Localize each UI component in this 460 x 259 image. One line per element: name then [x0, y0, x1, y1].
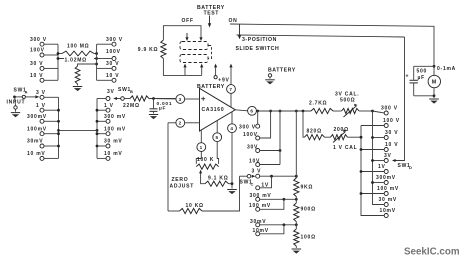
- potentiometer 500Ω 3V CAL: [335, 92, 373, 118]
- resistor 9.1 KΩ: [205, 175, 232, 186]
- svg-text:30 V: 30 V: [106, 61, 119, 67]
- pin 6 (output): [235, 106, 256, 115]
- svg-text:INPUT: INPUT: [7, 100, 26, 106]
- wire: SW1C 100mV row: [260, 199, 284, 209]
- svg-text:2: 2: [179, 121, 182, 126]
- wire: output to divider chain: [295, 110, 298, 178]
- svg-text:SLIDE SWITCH: SLIDE SWITCH: [236, 46, 280, 52]
- resistor 100 Ω: [294, 229, 316, 246]
- wire: lower attenuator link with 1.02MΩ label: [57, 56, 98, 63]
- ground at pin4/9.1K junction: [227, 182, 237, 194]
- wire: SW1C 300mV to divider tap: [260, 198, 298, 201]
- svg-text:10 V: 10 V: [385, 142, 398, 148]
- OFF pole arrow: [185, 33, 188, 41]
- svg-text:100 V: 100 V: [383, 118, 400, 124]
- pin 1: [196, 130, 205, 164]
- svg-text:4: 4: [230, 126, 233, 131]
- svg-text:300 V: 300 V: [30, 37, 47, 43]
- svg-text:9.1 KΩ: 9.1 KΩ: [208, 175, 228, 181]
- svg-text:100V: 100V: [243, 132, 258, 138]
- svg-text:30mV: 30mV: [27, 139, 43, 145]
- wire: battery-test line to SW1D wiper: [237, 35, 405, 37]
- capacitor 0.001 µF: [149, 97, 172, 119]
- svg-text:3: 3: [179, 97, 182, 102]
- ON pole arrow: [238, 25, 241, 40]
- svg-text:1.02MΩ: 1.02MΩ: [65, 58, 87, 64]
- svg-text:820Ω: 820Ω: [307, 129, 322, 135]
- svg-text:900Ω: 900Ω: [301, 206, 316, 212]
- switch SW1D wiper: [392, 37, 413, 170]
- svg-text:SeekIC.com: SeekIC.com: [404, 247, 460, 258]
- label BATTERY TEST: [197, 5, 225, 16]
- pin 5: [213, 120, 222, 163]
- wire: SW1C 1V row: [260, 176, 272, 188]
- resistor 1.02 MΩ to ground: [73, 63, 98, 92]
- svg-text:3-POSITION: 3-POSITION: [242, 37, 277, 43]
- svg-text:1 V CAL: 1 V CAL: [333, 145, 357, 151]
- battery negative terminal to ground: [265, 68, 296, 85]
- svg-text:10 V: 10 V: [106, 73, 119, 79]
- wire: SW1C 3V row to divider top: [260, 175, 298, 178]
- capacitor 500 µF: [406, 66, 435, 96]
- resistor 2.7 KΩ: [309, 100, 342, 113]
- svg-text:6: 6: [250, 109, 253, 114]
- ground divider bottom: [292, 246, 302, 254]
- svg-text:200Ω: 200Ω: [334, 127, 349, 133]
- switch SW1C wiper: [240, 174, 256, 186]
- svg-text:µF: µF: [159, 106, 166, 112]
- switch wafer SW1C contacts: [239, 124, 272, 236]
- svg-text:7: 7: [229, 87, 232, 92]
- pin 7 (V+): [227, 64, 236, 108]
- svg-text:300 mV: 300 mV: [250, 193, 272, 199]
- wire: SW1C 10mV row: [260, 225, 284, 234]
- slide switch mechanical link: [209, 46, 212, 59]
- svg-text:B: B: [130, 89, 134, 94]
- label ZERO ADJUST: [170, 177, 195, 189]
- svg-text:1: 1: [200, 145, 203, 150]
- switch SW1B wiper at 3V: [97, 87, 134, 101]
- wire: bus B (1V cal ranges): [360, 126, 385, 216]
- svg-text:ZERO: ZERO: [172, 177, 189, 183]
- resistor 22MΩ: [123, 96, 176, 109]
- resistor 820 Ω: [305, 129, 331, 140]
- svg-text:500: 500: [417, 68, 428, 74]
- svg-text:100 mV: 100 mV: [249, 203, 271, 209]
- svg-text:5: 5: [216, 135, 219, 140]
- svg-text:30V: 30V: [247, 144, 258, 150]
- pin 3: [157, 95, 200, 104]
- wire: SW1A top-group bus: [57, 44, 59, 80]
- svg-text:100 K: 100 K: [197, 157, 214, 163]
- svg-text:30 V: 30 V: [385, 130, 398, 136]
- svg-text:300 V: 300 V: [381, 106, 398, 112]
- wire: 820 branch from output: [302, 110, 305, 138]
- svg-text:500Ω: 500Ω: [340, 97, 355, 103]
- svg-text:0-1mA: 0-1mA: [437, 66, 456, 72]
- pin 4: [228, 112, 237, 184]
- svg-text:10V: 10V: [249, 158, 260, 164]
- battery +9V terminal: [214, 64, 230, 84]
- resistor 9 KΩ: [294, 178, 313, 203]
- wire: SW1C 100V to output: [260, 110, 272, 138]
- switch wafer SW1B top contacts: [97, 37, 123, 83]
- svg-text:A: A: [25, 90, 29, 95]
- wire: interconnect between columns: [59, 129, 98, 131]
- svg-text:9.9 KΩ: 9.9 KΩ: [138, 47, 158, 53]
- svg-text:3 V: 3 V: [36, 90, 46, 96]
- svg-text:300mV: 300mV: [27, 114, 47, 120]
- wire: ON line to meter: [230, 24, 434, 66]
- svg-text:100 MΩ: 100 MΩ: [67, 44, 89, 50]
- op-amp CA3160: [200, 88, 236, 131]
- svg-text:3 V: 3 V: [252, 169, 262, 175]
- svg-text:100mV: 100mV: [27, 126, 47, 132]
- svg-text:+: +: [406, 74, 410, 80]
- svg-text:D: D: [409, 165, 413, 170]
- svg-text:2.7KΩ: 2.7KΩ: [309, 100, 327, 106]
- svg-text:10mV: 10mV: [253, 228, 269, 234]
- slide switch dashed box pole 2: [180, 55, 208, 63]
- resistor 100 MΩ: [57, 44, 98, 56]
- svg-text:9KΩ: 9KΩ: [301, 185, 314, 191]
- svg-text:30 mV: 30 mV: [104, 139, 122, 145]
- svg-text:10mV: 10mV: [380, 208, 396, 214]
- ground meter: [429, 96, 439, 104]
- svg-text:+9V: +9V: [218, 78, 229, 84]
- 100K wiper: [199, 170, 205, 184]
- svg-text:ADJUST: ADJUST: [170, 183, 195, 189]
- svg-text:10 mV: 10 mV: [104, 151, 122, 157]
- svg-text:3V: 3V: [107, 89, 115, 95]
- svg-text:30 mV: 30 mV: [379, 197, 397, 203]
- svg-text:µF: µF: [418, 75, 425, 81]
- svg-text:1 V: 1 V: [36, 103, 46, 109]
- svg-text:300 V: 300 V: [239, 124, 256, 130]
- pin 2: [168, 118, 200, 127]
- svg-text:100Ω: 100Ω: [301, 234, 316, 240]
- battery test arrow: [208, 16, 211, 28]
- resistor 9.9 KΩ: [138, 40, 166, 59]
- label 3-POSITION SLIDE SWITCH: [236, 37, 280, 52]
- svg-text:1V: 1V: [378, 164, 386, 170]
- switch wafer SW1D contacts: [376, 106, 400, 218]
- potentiometer 100K zero adjust: [196, 157, 218, 169]
- potentiometer 200Ω 1V CAL: [331, 127, 362, 151]
- svg-text:BATTERY: BATTERY: [268, 68, 296, 74]
- resistor 900 Ω: [294, 203, 316, 229]
- svg-text:3V: 3V: [384, 153, 392, 159]
- svg-text:100 mV: 100 mV: [377, 186, 399, 192]
- svg-text:22MΩ: 22MΩ: [123, 103, 140, 109]
- wire: SW1C 30V/10V to output: [260, 110, 282, 165]
- svg-text:TEST: TEST: [204, 10, 220, 16]
- svg-text:ON: ON: [229, 18, 238, 24]
- meter junction: [433, 65, 456, 72]
- wire: output bus: [256, 110, 311, 112]
- svg-text:30mV: 30mV: [250, 219, 266, 225]
- switch SW1A wiper and INPUT terminal: [7, 87, 40, 117]
- svg-text:CA3160: CA3160: [202, 107, 225, 113]
- wire: 9.9K top to OFF contact: [163, 26, 202, 41]
- slide switch dashed box pole 1: [180, 42, 208, 50]
- svg-text:OFF: OFF: [182, 18, 194, 24]
- svg-text:M: M: [432, 80, 437, 86]
- wire: SW1C 300V to output: [256, 110, 259, 125]
- svg-text:300mV: 300mV: [376, 175, 396, 181]
- wire: SW1C 30mV to divider tap: [260, 223, 298, 226]
- switch wafer SW1B lower contacts: [96, 99, 126, 161]
- wire: SW1A mid/bottom bus: [57, 97, 60, 158]
- switch wafer SW1A contacts: [27, 37, 59, 160]
- wire: 9.9K bottom to switch contacts: [163, 59, 203, 76]
- svg-text:C: C: [251, 181, 255, 186]
- wire: bus A (3V cal ranges): [371, 110, 384, 205]
- resistor 10 KΩ feedback: [168, 123, 240, 214]
- svg-text:100V: 100V: [106, 49, 121, 55]
- meter M 0-1mA: [414, 66, 441, 97]
